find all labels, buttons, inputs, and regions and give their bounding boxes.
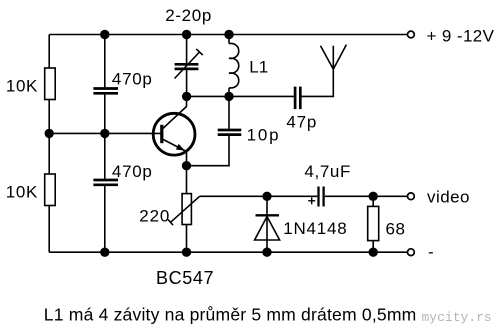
svg-text:BC547: BC547 xyxy=(156,268,214,288)
node base left xyxy=(45,129,54,138)
node emitter xyxy=(182,161,191,170)
svg-text:470p: 470p xyxy=(112,162,152,181)
capacitor C2 470p xyxy=(93,162,151,185)
wire antenna feed xyxy=(302,69,334,96)
capacitor C1 470p xyxy=(93,70,151,94)
resistor R2 10K xyxy=(6,174,55,206)
wire pot to bottom rail xyxy=(186,225,188,253)
capacitor C4 47p xyxy=(286,87,316,132)
svg-text:-: - xyxy=(428,243,434,262)
node tank trimmer xyxy=(182,92,191,101)
svg-text:68: 68 xyxy=(386,219,406,238)
wire bottom rail xyxy=(49,251,407,253)
terminal video xyxy=(408,188,470,207)
resistor R1 10K xyxy=(6,68,55,100)
svg-text:10p: 10p xyxy=(247,125,279,144)
wire divider column upper xyxy=(104,35,106,88)
node bottom pot xyxy=(182,248,191,257)
capacitor C3 trimmer 2-20p xyxy=(165,6,211,79)
wire base rail xyxy=(49,132,162,134)
terminal minus xyxy=(408,243,434,262)
node top coil xyxy=(224,30,233,39)
wire video rail right xyxy=(325,195,408,197)
svg-text:470p: 470p xyxy=(112,70,152,89)
node video resistor xyxy=(369,192,378,201)
node tank coil xyxy=(224,92,233,101)
node bottom divider xyxy=(100,248,109,257)
antenna xyxy=(321,45,347,70)
svg-text:video: video xyxy=(427,188,470,207)
node base divider xyxy=(100,129,109,138)
wire video rail left xyxy=(200,195,318,197)
capacitor C3 lower lead xyxy=(186,70,188,96)
wire top rail xyxy=(49,34,407,36)
node bottom diode xyxy=(262,248,271,257)
node video diode xyxy=(262,192,271,201)
node top trimmer xyxy=(182,30,191,39)
wire left rail upper xyxy=(48,35,50,69)
wire divider column mid xyxy=(104,95,106,179)
svg-text:mycity.rs: mycity.rs xyxy=(422,310,492,325)
svg-text:2-20p: 2-20p xyxy=(165,6,211,25)
svg-text:10K: 10K xyxy=(6,182,38,201)
node bottom resistor xyxy=(369,248,378,257)
wire left rail lower xyxy=(48,206,50,253)
svg-text:47p: 47p xyxy=(286,113,316,132)
diode D1 1N4148 xyxy=(255,196,347,252)
svg-text:+ 9 -12V: + 9 -12V xyxy=(427,27,495,46)
capacitor C5 10p xyxy=(187,96,279,165)
wire tank rail xyxy=(187,95,295,97)
wire divider column lower xyxy=(104,186,106,252)
transistor Q1 BC547 xyxy=(153,96,213,288)
svg-text:L1 má 4 závity na průměr 5 mm: L1 má 4 závity na průměr 5 mm drátem 0,5… xyxy=(44,305,417,325)
potentiometer R3 220 xyxy=(139,194,199,226)
resistor R4 68 xyxy=(368,196,405,252)
capacitor C3 trimmer 2-20p upper lead xyxy=(186,35,188,64)
capacitor C6 4,7uF xyxy=(304,162,350,206)
svg-text:1N4148: 1N4148 xyxy=(283,219,347,238)
wire left rail mid xyxy=(48,100,50,175)
wire emitter to pot xyxy=(186,166,188,194)
svg-text:L1: L1 xyxy=(249,58,268,77)
svg-text:10K: 10K xyxy=(6,76,38,95)
terminal supply xyxy=(408,27,495,46)
inductor L1 xyxy=(229,35,268,97)
svg-text:220: 220 xyxy=(139,207,169,226)
svg-text:4,7uF: 4,7uF xyxy=(304,162,350,181)
node top divider xyxy=(100,30,109,39)
